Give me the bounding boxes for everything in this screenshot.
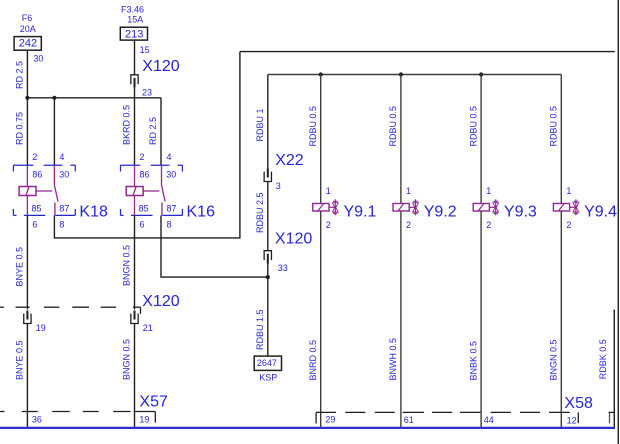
wire RDBU 0.5 to Y9.2 (388, 75, 401, 204)
svg-text:RDBU 0.5: RDBU 0.5 (388, 106, 398, 147)
wire BNBK 0.5 from Y9.3 pin 2 to X58 pin 44 (468, 211, 481, 428)
connector X58 (pins 29, 61, 44, 12) (316, 395, 614, 426)
junction dot (25, 96, 29, 100)
wire RD 0.75 to K18 coil (15, 98, 28, 165)
wire RDBU 1.5 to KSP (255, 264, 268, 357)
svg-text:61: 61 (404, 415, 414, 425)
svg-text:BNGN 0.5: BNGN 0.5 (122, 245, 132, 286)
svg-text:2647: 2647 (257, 358, 277, 368)
wire from K18 pin 8 up to top feed (54, 52, 240, 238)
svg-text:4: 4 (59, 152, 64, 162)
svg-text:20A: 20A (20, 24, 36, 34)
connector X120 pin 21 (131, 311, 153, 334)
svg-text:3: 3 (276, 181, 281, 191)
wire top feed to right edge (240, 51, 615, 53)
wire BNYE 0.5 to X57 pin 36 (15, 324, 28, 428)
wire RDBU 2.5 (255, 182, 268, 251)
junction dot (319, 72, 323, 76)
svg-text:23: 23 (142, 87, 152, 97)
svg-text:RD 2.5: RD 2.5 (148, 117, 158, 145)
svg-text:12: 12 (567, 416, 577, 426)
wire RDBU 0.5 to Y9.4 (549, 75, 562, 204)
svg-text:BNYE 0.5: BNYE 0.5 (15, 247, 25, 287)
svg-text:19: 19 (139, 415, 149, 425)
svg-text:86: 86 (140, 169, 150, 179)
connector X120 pin 19 (24, 311, 46, 334)
svg-text:BNGN 0.5: BNGN 0.5 (549, 339, 559, 380)
svg-text:33: 33 (278, 263, 288, 273)
valve feed bus (268, 74, 562, 76)
svg-text:1: 1 (326, 186, 331, 196)
wire RD 2.5 from F6 pin 30 (15, 50, 44, 98)
svg-text:BNGN 0.5: BNGN 0.5 (122, 339, 132, 380)
svg-text:1: 1 (566, 186, 571, 196)
svg-text:Y9.2: Y9.2 (424, 204, 457, 221)
svg-text:2: 2 (140, 152, 145, 162)
solenoid valve Y9.2 (393, 186, 457, 230)
svg-text:85: 85 (32, 204, 42, 214)
wire BNGN 0.5 from K16 pin 6 (122, 215, 135, 309)
svg-text:6: 6 (32, 220, 37, 230)
svg-text:X120: X120 (142, 58, 179, 75)
solenoid valve Y9.1 (313, 186, 377, 230)
svg-text:8: 8 (59, 220, 64, 230)
svg-text:Y9.1: Y9.1 (344, 204, 377, 221)
harness boundary X120 (pins 19, 21) (0, 293, 180, 314)
svg-text:4: 4 (167, 152, 172, 162)
solenoid valve Y9.4 (553, 186, 617, 230)
svg-text:15: 15 (140, 45, 150, 55)
wire RD 2.5 to K16 contact 30 (148, 98, 161, 165)
svg-text:F6: F6 (22, 13, 33, 23)
wire 30-feed rail (27, 97, 161, 99)
fuse F3.46 (213) (120, 4, 147, 40)
svg-text:2: 2 (32, 152, 37, 162)
relay K16 (121, 152, 216, 230)
svg-text:1: 1 (486, 186, 491, 196)
svg-text:X57: X57 (139, 394, 168, 411)
wire BNGN 0.5 from Y9.4 pin 2 to X58 pin 12 (549, 211, 562, 428)
svg-text:X120: X120 (142, 293, 179, 310)
svg-text:RDBU 1: RDBU 1 (255, 108, 265, 141)
solenoid valve Y9.3 (473, 186, 537, 230)
svg-text:Y9.4: Y9.4 (584, 204, 617, 221)
junction dot (479, 72, 483, 76)
wire RDBK 0.5 down right edge (598, 310, 614, 428)
wire RDBU 0.5 to Y9.1 (308, 75, 321, 204)
svg-text:BNYE 0.5: BNYE 0.5 (15, 340, 25, 380)
wire BNWH 0.5 from Y9.2 pin 2 to X58 pin 61 (388, 211, 401, 428)
fuse F6 (242) (14, 13, 41, 50)
svg-text:X58: X58 (564, 395, 593, 412)
ECU KSP (2647) (254, 356, 281, 382)
wire from K16 pin 87 to KSP node (161, 215, 268, 277)
svg-text:30: 30 (166, 169, 176, 179)
svg-text:K18: K18 (79, 203, 108, 220)
svg-text:BNWH 0.5: BNWH 0.5 (388, 338, 398, 381)
svg-text:36: 36 (32, 415, 42, 425)
svg-text:BKRD 0.5: BKRD 0.5 (122, 105, 132, 145)
svg-text:15A: 15A (127, 14, 143, 24)
junction dot (399, 72, 403, 76)
connector X120 pin 33 (264, 231, 312, 274)
wire RDBU 1 from valve bus (255, 75, 268, 169)
svg-text:RDBU 0.5: RDBU 0.5 (308, 106, 318, 147)
junction dot KSP node (266, 275, 270, 279)
svg-text:19: 19 (36, 323, 46, 333)
connector X120 pin 23 (131, 58, 180, 98)
svg-text:Y9.3: Y9.3 (504, 204, 537, 221)
svg-text:X120: X120 (275, 231, 312, 248)
wire pin 15 from F3.46 to connector (135, 40, 150, 75)
wire BNRD 0.5 from Y9.1 pin 2 to X58 pin 29 (308, 211, 321, 428)
svg-text:29: 29 (325, 414, 335, 424)
svg-text:87: 87 (167, 204, 177, 214)
svg-text:2: 2 (566, 220, 571, 230)
svg-text:2: 2 (326, 220, 331, 230)
svg-text:242: 242 (19, 38, 37, 50)
svg-text:30: 30 (33, 54, 43, 64)
connector X22 pin 3 (264, 152, 304, 191)
connector X57 (pins 36, 19) (0, 394, 168, 425)
svg-text:87: 87 (59, 204, 69, 214)
svg-text:RD 2.5: RD 2.5 (15, 61, 25, 89)
svg-text:1: 1 (406, 186, 411, 196)
svg-text:85: 85 (139, 204, 149, 214)
svg-text:K16: K16 (187, 203, 216, 220)
wire BKRD 0.5 to K16 coil (122, 88, 135, 166)
svg-text:30: 30 (59, 169, 69, 179)
wire RDBU 0.5 to Y9.3 (468, 75, 481, 204)
svg-text:86: 86 (32, 169, 42, 179)
svg-text:RDBU 1.5: RDBU 1.5 (255, 309, 265, 350)
svg-text:RDBK 0.5: RDBK 0.5 (598, 339, 608, 379)
svg-text:BNBK 0.5: BNBK 0.5 (468, 341, 478, 381)
wire BNYE 0.5 from K18 pin 6 (15, 215, 28, 309)
relay K18 (13, 152, 108, 230)
svg-text:213: 213 (125, 28, 143, 40)
ground bus rail (0, 427, 615, 429)
svg-text:KSP: KSP (259, 372, 277, 382)
svg-text:44: 44 (484, 415, 494, 425)
junction dot (52, 96, 56, 100)
svg-text:RDBU 0.5: RDBU 0.5 (468, 106, 478, 147)
svg-text:RD 0.75: RD 0.75 (15, 112, 25, 145)
wire BNGN 0.5 to X57 pin 19 (122, 324, 135, 428)
svg-text:X22: X22 (275, 152, 304, 169)
wire to K18 contact 30 (53, 98, 55, 165)
svg-text:F3.46: F3.46 (121, 4, 144, 14)
svg-text:6: 6 (140, 220, 145, 230)
svg-text:BNRD 0.5: BNRD 0.5 (308, 340, 318, 381)
svg-text:2: 2 (406, 220, 411, 230)
svg-text:8: 8 (167, 220, 172, 230)
svg-text:2: 2 (486, 220, 491, 230)
svg-text:RDBU 2.5: RDBU 2.5 (255, 192, 265, 233)
svg-text:21: 21 (143, 323, 153, 333)
svg-text:RDBU 0.5: RDBU 0.5 (549, 106, 559, 147)
